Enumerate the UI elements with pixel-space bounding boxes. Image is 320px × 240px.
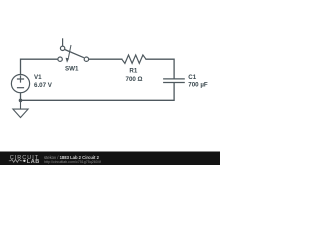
svg-text:http://circuitlab.com/c751g75q: http://circuitlab.com/c751g75q2604f (44, 160, 101, 164)
footer bar (0, 152, 220, 166)
terminal circle right (84, 57, 88, 61)
svg-text:R1: R1 (129, 68, 137, 75)
svg-text:C1: C1 (188, 74, 196, 81)
svg-text:700 µF: 700 µF (188, 82, 208, 89)
ground (13, 100, 28, 117)
actuator arrow (68, 45, 71, 58)
wire resistor to capacitor top (146, 59, 174, 78)
voltage source V1 (11, 75, 29, 93)
wire switch to resistor R1 (89, 58, 122, 60)
capacitor C1 (163, 79, 185, 83)
pin stub top throw (62, 38, 64, 46)
blade (65, 50, 84, 58)
wire V1 top to switch (21, 59, 58, 74)
resistor R1 (122, 55, 146, 63)
CircuitLab logo wordmark (9, 155, 40, 165)
svg-text:700 Ω: 700 Ω (126, 76, 143, 83)
terminal circle left (58, 57, 62, 61)
svg-text:SW1: SW1 (65, 65, 79, 72)
node junction at V1 bottom (19, 99, 23, 103)
svg-text:V1: V1 (34, 74, 42, 81)
switch SW1 (58, 38, 89, 62)
svg-text:LAB: LAB (27, 159, 40, 165)
terminal circle top (60, 46, 64, 50)
wire V1 bottom to junction (20, 93, 22, 101)
svg-text:6.07 V: 6.07 V (34, 82, 53, 89)
wire capacitor bottom to bottom rail (21, 83, 175, 100)
